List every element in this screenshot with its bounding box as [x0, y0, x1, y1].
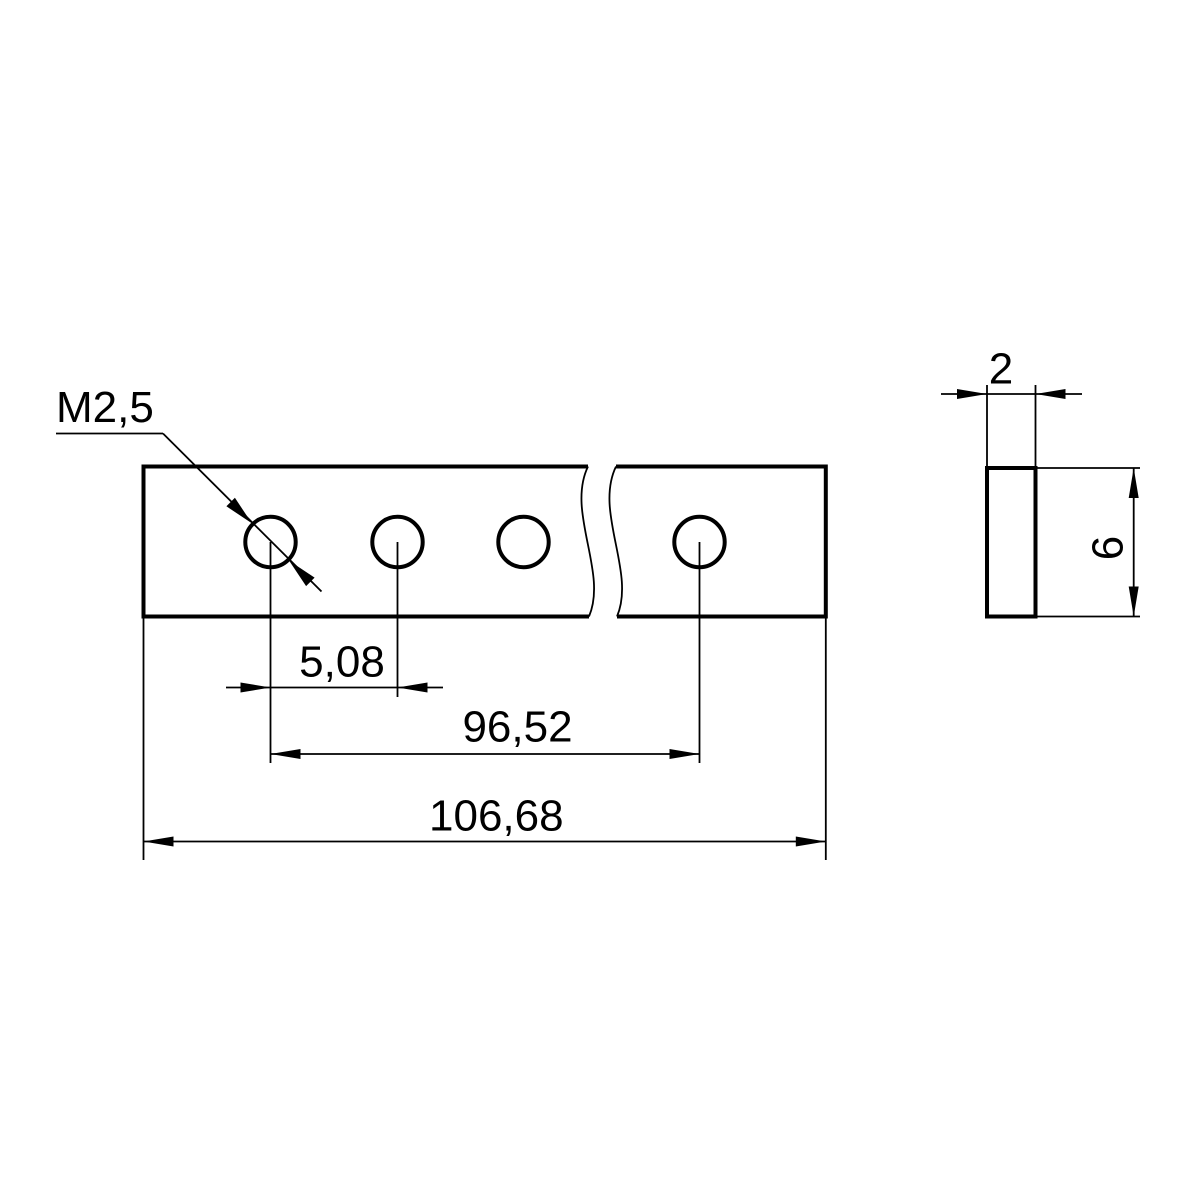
dimension line 6: [1133, 468, 1135, 617]
arrowhead 96,52 right (inside, pointing right): [670, 749, 700, 759]
leader arrowhead upper-left at hole edge: [226, 498, 251, 524]
leader underline: [56, 433, 163, 435]
svg-text:106,68: 106,68: [429, 791, 564, 840]
extension line from hole 1 center: [270, 542, 272, 763]
arrowhead 2 right (outside, pointing left): [1036, 389, 1066, 399]
dimension line 5,08: [226, 687, 443, 689]
hole 3: [498, 517, 548, 567]
break line left S-curve: [581, 467, 594, 617]
svg-text:2: 2: [989, 345, 1013, 394]
arrowhead 6 bottom (inside, pointing down): [1129, 587, 1139, 617]
dimension line 96,52: [271, 753, 700, 755]
bar outline left section (front view): [144, 467, 590, 617]
hole 1 (tapped M2,5): [245, 517, 295, 567]
break line right S-curve: [609, 467, 622, 617]
arrowhead 5,08 left (outside, pointing right): [241, 683, 271, 693]
arrowhead 96,52 left (inside, pointing left): [271, 749, 301, 759]
bar outline right section (front view): [616, 467, 826, 617]
arrowhead 6 top (inside, pointing up): [1129, 468, 1139, 498]
extension line from hole 2 center: [397, 542, 399, 697]
svg-text:6: 6: [1084, 536, 1133, 560]
arrowhead 2 left (outside, pointing right): [957, 389, 987, 399]
svg-text:5,08: 5,08: [299, 638, 385, 687]
svg-text:96,52: 96,52: [462, 703, 572, 752]
extension line from hole 4 center: [699, 542, 701, 763]
extension line side-view right-top (for dim 6): [1037, 467, 1140, 469]
arrowhead 106,68 left (inside, pointing left): [144, 837, 174, 847]
dimension line 2: [941, 393, 1082, 395]
hole 4: [674, 517, 724, 567]
extension line from bar bottom-left corner: [143, 618, 145, 860]
svg-text:M2,5: M2,5: [56, 383, 154, 432]
side view plate outline: [987, 468, 1036, 617]
arrowhead 5,08 right (outside, pointing left): [398, 683, 428, 693]
leader diagonal line through hole 1: [163, 434, 322, 592]
extension line side-view top-left (for dim 2): [986, 385, 988, 468]
leader arrowhead lower-right at hole edge: [289, 561, 314, 586]
hole 2: [372, 517, 422, 567]
arrowhead 106,68 right (inside, pointing right): [796, 837, 826, 847]
extension line side-view right-bottom (for dim 6): [1037, 616, 1140, 618]
extension line from bar bottom-right corner: [825, 618, 827, 860]
dimension line 106,68: [144, 841, 826, 843]
extension line side-view top-right (for dim 2): [1035, 385, 1037, 468]
